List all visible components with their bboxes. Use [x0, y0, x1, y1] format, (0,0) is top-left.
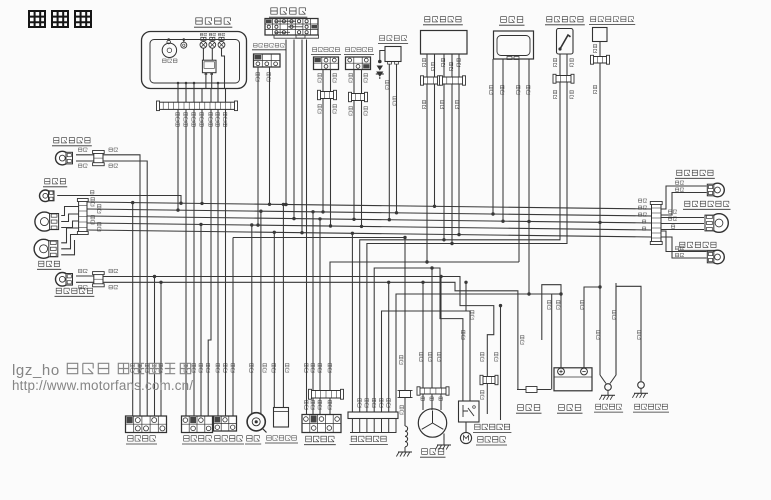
pickup coil winding: [405, 426, 408, 447]
junction: [167, 38, 170, 41]
label: front brake switch: [311, 48, 341, 55]
ignition switch wire label upper 2: [311, 363, 315, 372]
junction: [259, 210, 262, 213]
wire: [282, 204, 284, 407]
junction regulator S3: [425, 260, 428, 263]
wire: [103, 161, 147, 416]
relay wire label 1: [461, 330, 465, 339]
magneto phase label a: [421, 397, 425, 401]
turn signal switch connector: [182, 416, 213, 433]
wire: [426, 84, 428, 262]
wire: [458, 84, 460, 235]
wire: [225, 109, 227, 416]
wire: [257, 67, 259, 225]
ignition switch connector: [302, 415, 341, 433]
junction coil bus2: [395, 211, 398, 214]
horn H1: [247, 413, 266, 433]
wire: [87, 209, 652, 216]
bus label 1 qian lv: [638, 199, 646, 202]
tail wire label 1: [668, 210, 676, 213]
kill switch connector: [126, 416, 167, 433]
bus label 5 lv: [642, 227, 645, 230]
magneto wire label 1: [419, 352, 423, 361]
headlamp wire label 2: [97, 204, 101, 213]
wire: [440, 394, 442, 410]
wire label hei bai 3: [78, 285, 87, 289]
wire: [395, 419, 397, 433]
front brake wire label 3: [318, 104, 322, 113]
label: rear left turn signal: [678, 242, 718, 250]
CDI wire label 1: [489, 85, 493, 94]
wire: [661, 193, 707, 216]
label: fuel level sensor (ran you chuan gan qi): [545, 17, 585, 25]
wire: [330, 262, 519, 415]
rear left turn signal lamp: [707, 250, 724, 264]
loom wire A inline connector: [480, 375, 498, 384]
engine ground wire label: [637, 330, 641, 339]
label: tail / brake lamp: [683, 201, 731, 209]
rear right turn signal lamp: [707, 183, 724, 197]
wire: [661, 186, 707, 209]
junction: [176, 208, 179, 211]
wire: [366, 419, 368, 433]
heater wire label 1: [593, 44, 596, 52]
rear brake switch connector: [346, 57, 371, 70]
watermark line 2: url: [12, 378, 193, 393]
ignition coil T1 body: [385, 47, 401, 65]
horn wire label 1: [250, 363, 254, 372]
front brake inline connector: [318, 90, 337, 99]
junction front brake bus4: [329, 224, 332, 227]
starter relay body: [459, 401, 480, 422]
loom wire A label lower: [480, 390, 484, 399]
wire: [306, 40, 308, 415]
wire: [367, 82, 567, 412]
horn button wire label 3: [231, 363, 235, 372]
frame ground symbol: [599, 390, 615, 400]
turn switch wire label 1: [184, 363, 188, 372]
start cutoff relay connector: [254, 54, 281, 67]
junction coil bus3: [388, 218, 391, 221]
label: starter relay (qi dong ji dian qi): [473, 424, 511, 432]
fuse wire label 2: [547, 300, 551, 309]
headlamp connector: [77, 199, 88, 235]
wire: [426, 54, 428, 77]
regulator wire label 6: [422, 100, 425, 108]
junction cutoff lead2 bus1: [268, 203, 271, 206]
wire: [661, 223, 704, 225]
headlamp wire label 1: [91, 197, 95, 206]
wire: [422, 282, 424, 388]
wire label qian lv: [78, 148, 87, 152]
wire: [492, 59, 494, 214]
wire: [185, 109, 187, 416]
junction branch 500: [499, 304, 502, 307]
wire colour label under bar 3: [192, 112, 196, 126]
wire: [87, 202, 652, 209]
loom wire A label upper: [480, 352, 484, 361]
wire: [388, 419, 390, 433]
rear brake wire label 4: [364, 106, 368, 115]
CDI wire label 3: [516, 85, 520, 94]
magneto connector: [417, 387, 449, 395]
wire: [350, 432, 397, 434]
wire: [193, 109, 195, 416]
junction front brake bus2: [321, 210, 324, 213]
label: engine ground (fa dong ji da tie): [633, 404, 669, 412]
wire: [208, 109, 211, 416]
label: instrument cluster (yi biao zhi shi): [194, 18, 232, 27]
wire: [404, 238, 406, 391]
ignition switch wire label upper 3: [318, 363, 322, 372]
label: turn signal switch: [182, 436, 213, 444]
label: kill switch (xi huo kai guan): [126, 436, 157, 444]
ignition switch wire label lower 4: [328, 400, 332, 409]
instrument cluster U1 outer case: [142, 32, 247, 89]
coil wire label 1: [385, 80, 389, 89]
wire: [465, 422, 467, 433]
kill switch wire label 1: [131, 363, 135, 372]
wire: [465, 282, 467, 311]
junction: [199, 223, 202, 226]
tail wire label 3: [671, 225, 674, 228]
rear harness connector bar: [650, 202, 662, 245]
fuel wire label 4: [570, 90, 573, 98]
wire: [431, 394, 433, 410]
label: regulator rectifier (wen ya zheng liu qi): [423, 17, 463, 25]
wire label qian lv 2: [109, 148, 118, 152]
wire: [542, 285, 561, 368]
front left turn signal lamp: [56, 273, 73, 287]
fuse F1 element: [517, 387, 551, 393]
battery wire label 1: [556, 300, 560, 309]
wire: [221, 37, 223, 40]
interface wire label 4: [380, 398, 384, 407]
fuel sensor body: [557, 29, 574, 55]
battery wire label 2: [580, 300, 584, 309]
wire: [661, 229, 704, 231]
junction CDI bus2: [491, 212, 494, 215]
junction magneto S4: [430, 266, 433, 269]
wire: [168, 39, 170, 42]
wire: [132, 203, 134, 416]
wire: [185, 83, 187, 88]
magneto ground: [435, 440, 451, 450]
wire: [201, 109, 203, 203]
wire: [443, 434, 445, 441]
label: position lamp (wei zhi deng): [43, 179, 67, 187]
interface wire label 1: [358, 398, 362, 407]
wire: [210, 88, 212, 102]
wire: [388, 282, 390, 412]
wire label cheng 2: [109, 269, 118, 273]
wire colour label under bar 6: [216, 112, 220, 126]
wire: [211, 48, 213, 60]
kill switch wire label 2: [138, 363, 142, 372]
interface wire label 5: [387, 398, 391, 407]
spark plug symbol (double arrow): [376, 60, 384, 79]
label: harness interface (wen ya qi jie kou): [350, 436, 388, 444]
bus label 4 hei: [642, 220, 645, 223]
bus label 3 hei bai: [638, 213, 646, 216]
fuel wire label 1: [553, 58, 556, 66]
wire: [273, 232, 275, 407]
wire: [610, 283, 616, 384]
wire: [599, 63, 601, 375]
junction: [177, 82, 180, 85]
front right turn signal lamp: [56, 151, 73, 165]
wire: [177, 83, 179, 88]
wire: [154, 277, 156, 417]
wire: [202, 48, 204, 60]
junction heater bus3: [598, 221, 601, 224]
wire: [232, 238, 234, 417]
junction CDI pin4 S7: [527, 292, 530, 295]
wire: [285, 40, 287, 205]
wire label hei bai: [78, 164, 87, 168]
junction: [200, 202, 203, 205]
flasher wire label 2: [285, 363, 289, 372]
label: front right turn signal: [52, 138, 92, 146]
regulator wire label 2: [431, 62, 434, 70]
junction: [185, 82, 188, 85]
position lamp: [40, 190, 55, 202]
regulator rectifier U2 body: [421, 31, 468, 55]
fuel wire label 2: [570, 58, 573, 66]
label: ignition coil (dian huo xian quan): [378, 36, 408, 44]
label: magneto (ci dian ji): [420, 449, 446, 458]
relay wire label 2: [470, 310, 474, 319]
turn switch wire label 4: [206, 363, 210, 372]
horn button wire label 1: [216, 363, 220, 372]
headlamp wire label 4: [97, 222, 101, 231]
wire: [353, 101, 355, 220]
junction cutoff lead1 bus4: [256, 223, 259, 226]
wire: [177, 88, 179, 102]
junction: [159, 281, 162, 284]
title text: dian lu tu (circuit diagram): [29, 11, 91, 27]
label: ignition switch (dian huo kai guan): [304, 436, 336, 445]
position wire colour label: [90, 190, 94, 194]
wire: [103, 282, 518, 389]
junction regulator S1: [442, 238, 445, 241]
fuel sensor inline connector: [553, 74, 574, 83]
wire: [353, 70, 355, 94]
wire: [217, 88, 219, 102]
frame ground wire label 1: [596, 330, 600, 339]
wire: [193, 88, 195, 102]
headlamp wire label 3: [91, 215, 95, 224]
wire: [322, 99, 324, 212]
CDI unit U3 body: [494, 31, 534, 60]
wire: [502, 59, 504, 221]
magneto wire label 3: [437, 352, 441, 361]
instrument harness connector bar: [157, 101, 238, 111]
pickup wire label: [399, 355, 403, 364]
kill switch wire label 5: [159, 363, 163, 372]
wire colour label under bar 7: [223, 112, 227, 126]
wire: [260, 211, 262, 414]
label: CDI igniter (dian huo qi): [499, 17, 525, 26]
label: horn (la ba): [245, 436, 261, 444]
wire: [518, 59, 520, 262]
wire: [374, 268, 463, 412]
wire: [211, 75, 213, 88]
ignition switch wire label upper 1: [305, 363, 309, 372]
turn switch wire label 3: [199, 363, 203, 372]
junction magneto wire B: [421, 281, 424, 284]
junction regulator S2: [450, 242, 453, 245]
wire: [434, 54, 436, 77]
front brake wire label 4: [333, 104, 337, 113]
wire: [217, 83, 219, 88]
wire colour label under bar 2: [184, 112, 188, 126]
wire label cheng: [78, 269, 87, 273]
wire: [61, 235, 78, 249]
magneto G1 (3-phase symbol): [418, 409, 446, 437]
wire: [584, 287, 600, 368]
wire: [217, 109, 219, 416]
wire: [599, 42, 601, 57]
wire: [500, 306, 502, 420]
label above indicator bulb 1: [200, 33, 206, 36]
wire: [301, 40, 303, 233]
junction regulator bus5: [457, 233, 460, 236]
tail brake lamp: [705, 214, 728, 233]
junction: [193, 82, 196, 85]
kill switch wire label 3: [145, 363, 149, 372]
harness interface connector top bar: [348, 412, 398, 419]
interface wire label 2: [365, 398, 369, 407]
wire: [87, 216, 652, 223]
heater wire label 2: [593, 85, 596, 93]
junction CDI pin4 bus3: [527, 220, 530, 223]
front brake switch connector: [314, 57, 339, 70]
rear brake inline connector: [349, 92, 368, 101]
junction: [273, 231, 276, 234]
wire: [361, 70, 363, 94]
wire: [396, 64, 398, 213]
wire: [351, 233, 353, 412]
wire: [211, 37, 213, 40]
junction: [311, 210, 314, 213]
wire colour label cutoff 1: [256, 72, 260, 81]
wire: [359, 419, 361, 433]
label: speedometer: [162, 59, 177, 63]
wire: [193, 83, 195, 88]
kill switch wire label 4: [153, 363, 157, 372]
rear brake wire label 2: [364, 73, 368, 82]
wire: [440, 277, 442, 389]
front left turn connector: [93, 272, 105, 287]
ignition switch wire label lower 1: [305, 400, 309, 409]
RR wire label 1: [675, 181, 683, 184]
label: rear right turn signal: [675, 170, 715, 178]
regulator wire label 3: [441, 58, 444, 66]
wire: [76, 281, 94, 283]
bus label 2 lan bai: [638, 206, 646, 209]
svg-text:http://www.motorfans.com.cn/: http://www.motorfans.com.cn/: [12, 378, 193, 393]
wire: [404, 398, 406, 427]
starter motor M1: [460, 432, 471, 443]
wire: [434, 84, 436, 206]
magneto phase label b: [430, 397, 434, 401]
ignition switch wire label lower 2: [311, 400, 315, 409]
wire: [76, 154, 94, 156]
wire: [61, 207, 78, 216]
horn button wire label 2: [224, 363, 228, 372]
wire: [451, 84, 453, 244]
RL wire label 1: [675, 246, 683, 249]
pickup bullet connector: [398, 391, 413, 398]
wire: [330, 99, 332, 227]
front brake wire label 2: [333, 73, 337, 82]
wire label hei bai 4: [109, 285, 118, 289]
ignition switch wire label upper 4: [328, 363, 332, 372]
illumination bulb in cluster: [181, 42, 187, 48]
carburetor heater body: [593, 28, 608, 42]
interface wire label 3: [372, 398, 376, 407]
horn wire label 2: [263, 363, 267, 372]
wire: [458, 54, 460, 77]
junction: [250, 223, 253, 226]
battery BT1: [554, 368, 592, 391]
odometer unit box in cluster: [202, 60, 216, 75]
wire: [388, 64, 390, 220]
wire: [373, 419, 375, 433]
junction: [179, 202, 182, 205]
wire: [183, 40, 185, 43]
wire: [380, 51, 385, 61]
wire: [528, 59, 530, 294]
wire label hei bai 2: [109, 164, 118, 168]
wire: [103, 155, 140, 416]
CDI wire label 2: [500, 85, 504, 94]
indicator bulb 3 (with X filament): [218, 37, 225, 48]
label: frame ground (che ti da tie): [594, 404, 623, 412]
wire colour label under bar 4: [200, 112, 204, 126]
label: start cutoff relay (dian qi dong duan dian qi): [252, 43, 286, 49]
junction: [318, 217, 321, 220]
regulator inline connector B: [440, 76, 466, 85]
regulator wire label 8: [455, 100, 458, 108]
junction lighting3 bus5: [300, 231, 303, 234]
regulator wire label 1: [422, 58, 425, 66]
wire: [443, 84, 445, 240]
indicator bulb 2 (with X filament): [209, 37, 216, 48]
wire: [661, 217, 704, 219]
wire: [251, 225, 253, 415]
wire: [76, 160, 94, 162]
wire: [396, 294, 552, 412]
wire: [200, 224, 202, 416]
wire: [76, 275, 94, 277]
wire: [177, 109, 179, 210]
wire: [616, 286, 641, 381]
wire colour label cutoff 2: [267, 72, 271, 81]
frame ground ring terminal: [605, 384, 612, 391]
wire: [202, 37, 204, 40]
label: starter motor (qi dong dian ji): [476, 437, 507, 445]
wire: [222, 48, 225, 88]
wire: [57, 196, 181, 204]
junction battery negative frame wire: [598, 285, 601, 288]
carb heater inline connector: [591, 55, 610, 64]
junction rear brake bus3: [352, 218, 355, 221]
wire: [361, 101, 363, 227]
label: battery (xu dian chi): [557, 405, 583, 414]
turn switch wire label 2: [192, 363, 196, 372]
